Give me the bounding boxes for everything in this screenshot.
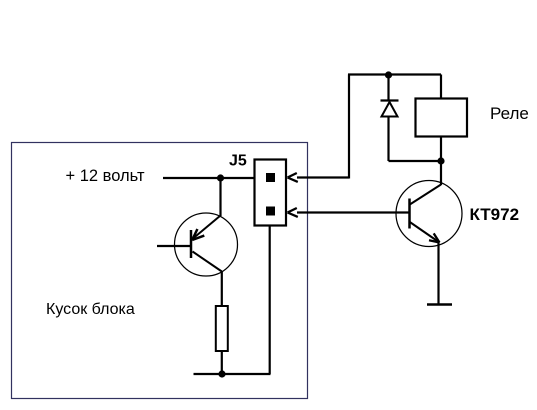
transistor VT1 emitter arrowhead (points to base) (192, 229, 204, 240)
wire VT2 emitter down to ground (437, 243, 439, 305)
wire VT1 base lead (157, 245, 191, 247)
svg-text:Кусок блока: Кусок блока (46, 301, 135, 318)
wire from J5 pin1 arrow right then up (to top rail) (297, 75, 349, 179)
ground symbol (427, 303, 452, 306)
transistor VT2 emitter diagonal (410, 222, 440, 243)
transistor VT1 collector diagonal (193, 252, 222, 272)
arrow into J5 pin 1 (288, 173, 298, 182)
diode VD1 triangle (382, 102, 398, 117)
wire down to VT2 collector (440, 161, 442, 185)
node junction dot relay/diode/collector (437, 157, 444, 164)
connector J5 body (255, 160, 287, 226)
block outline (Кусок блока box) (12, 143, 308, 399)
wire J5 bottom lead down to bottom rail (269, 226, 271, 374)
svg-text:J5: J5 (229, 153, 247, 170)
transistor VT1 (PNP) circle (175, 213, 238, 276)
relay K1 body (416, 99, 468, 137)
diode VD1 cathode bar (381, 99, 399, 101)
node junction dot on +12V rail (217, 174, 224, 181)
node junction dot on top rail (385, 71, 392, 78)
wire diode bottom lead (387, 117, 389, 162)
wire flyback bottom rail (389, 160, 442, 162)
transistor VT2 emitter arrowhead (429, 233, 440, 242)
wire bottom rail (194, 373, 271, 375)
svg-text:Реле: Реле (490, 104, 529, 123)
wire resistor bottom lead (221, 351, 223, 374)
arrow into J5 pin 2 (288, 208, 298, 217)
wire top rail (348, 73, 441, 75)
transistor VT1 emitter diagonal (193, 216, 221, 239)
wire relay top lead (440, 75, 442, 99)
wire VT2 base lead from J5 pin 2 (297, 211, 410, 213)
transistor VT1 base bar (190, 230, 193, 258)
wire diode top lead (387, 75, 389, 101)
wire junction down to PNP emitter (219, 178, 221, 216)
resistor R1 (216, 306, 228, 351)
wire +12V rail to J5 (163, 177, 255, 179)
wire VT1 collector down to resistor (221, 271, 223, 306)
transistor VT2 base bar (408, 199, 411, 229)
svg-text:+ 12 вольт: + 12 вольт (66, 167, 145, 185)
node junction dot on bottom rail (218, 370, 225, 377)
transistor VT2 collector diagonal (410, 185, 441, 205)
connector J5 pin 1 square (266, 173, 275, 182)
transistor VT2 КТ972 (NPN) circle (396, 181, 462, 247)
svg-text:КТ972: КТ972 (470, 205, 520, 224)
connector J5 pin 2 square (266, 207, 275, 216)
wire relay bottom lead (440, 137, 442, 162)
